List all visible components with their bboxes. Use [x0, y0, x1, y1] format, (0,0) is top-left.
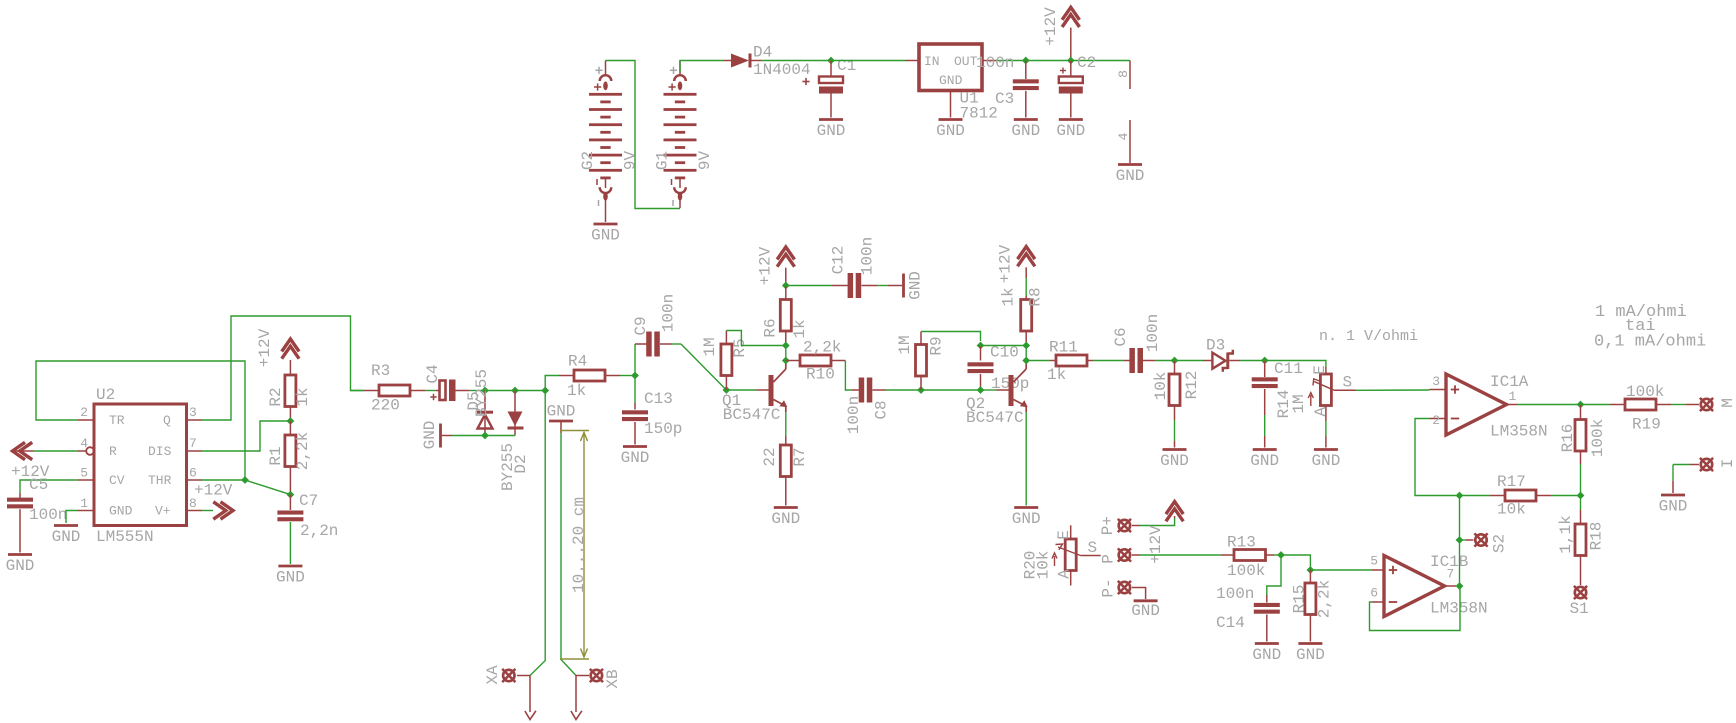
wire R5 top jog: [726, 331, 785, 346]
wire R14 wiper to IC1A: [1356, 389, 1430, 391]
wire probe XB drop: [561, 433, 576, 676]
junction R6/R5: [782, 342, 790, 350]
svg-text:1M: 1M: [701, 337, 719, 356]
wire P+ to +12V: [1132, 518, 1175, 526]
svg-text:+12V: +12V: [256, 328, 274, 367]
wire pin1 to ground: [66, 511, 78, 524]
diode D2 BY255: [499, 391, 530, 492]
wire R9 top to C10 node: [921, 332, 981, 342]
svg-text:D3: D3: [1206, 337, 1225, 355]
svg-text:M: M: [1719, 398, 1736, 408]
svg-text:5: 5: [1370, 554, 1378, 569]
capacitor C5 100n: [7, 476, 67, 553]
svg-text:GND: GND: [1012, 510, 1041, 528]
battery G1: [654, 61, 715, 209]
wire net to R4 and probe: [515, 390, 545, 392]
svg-text:DIS: DIS: [148, 444, 172, 459]
wire G1+ to D4: [680, 61, 724, 73]
capacitor C11: [1252, 360, 1303, 448]
wire R8 to collector: [1025, 346, 1027, 361]
connector P-: [1100, 578, 1132, 597]
junction R15 top: [1307, 566, 1315, 574]
junction at C2: [1067, 57, 1075, 65]
ground under C13: [621, 447, 650, 468]
svg-text:6: 6: [189, 466, 197, 481]
svg-text:7: 7: [189, 436, 197, 451]
transistor Q2 BC547C: [966, 361, 1028, 428]
wire Q2 emitter to ground: [1025, 412, 1027, 506]
svg-text:LM358N: LM358N: [1430, 600, 1488, 618]
pin 4 of IC1 supply: [1116, 120, 1131, 163]
supply +12V at R6: [757, 246, 795, 285]
wire D4 to C1: [761, 60, 831, 62]
svg-text:C6: C6: [1112, 327, 1130, 346]
connector S2: [1460, 533, 1509, 553]
junction C11: [1261, 357, 1269, 365]
svg-text:C4: C4: [424, 364, 442, 383]
connector M: [1686, 398, 1736, 411]
svg-text:0,1 mA/ohmi: 0,1 mA/ohmi: [1594, 333, 1706, 352]
diode D4 1N4004: [724, 44, 811, 80]
svg-text:4: 4: [1116, 132, 1131, 140]
capacitor C2: [1059, 54, 1096, 118]
resistor R6 1k: [762, 286, 810, 346]
svg-text:+12V: +12V: [194, 482, 233, 500]
junction R9 bottom: [917, 386, 925, 394]
junction THR: [241, 476, 249, 484]
svg-text:IC1A: IC1A: [1490, 373, 1529, 391]
wire IC1B feedback: [1370, 586, 1461, 631]
svg-text:E: E: [1311, 365, 1329, 375]
probe XA: [484, 665, 536, 720]
pin 6: [187, 466, 203, 481]
svg-text:R: R: [109, 444, 117, 459]
svg-text:2,2n: 2,2n: [300, 522, 338, 540]
svg-text:10k: 10k: [1035, 551, 1053, 580]
svg-text:C8: C8: [873, 400, 891, 419]
capacitor C13 150p: [622, 376, 682, 445]
svg-text:C5: C5: [29, 476, 48, 494]
svg-text:R15: R15: [1291, 585, 1309, 614]
wire base to Q2: [981, 389, 997, 391]
svg-text:2: 2: [80, 405, 88, 420]
svg-text:100n: 100n: [660, 294, 678, 332]
ground under G2: [591, 224, 620, 245]
junction R12: [1171, 357, 1179, 365]
svg-text:V+: V+: [155, 504, 171, 519]
battery G2: [579, 61, 640, 223]
pin 5: [78, 466, 94, 481]
svg-text:C10: C10: [990, 344, 1019, 362]
svg-text:GND: GND: [421, 421, 439, 450]
wire pin5 net: [1310, 569, 1372, 571]
ground under R15: [1296, 644, 1325, 665]
wire base net: [921, 389, 981, 391]
svg-text:GND: GND: [1311, 452, 1340, 470]
wire P to R13: [1132, 554, 1221, 556]
resistor R4 1k: [545, 353, 620, 401]
svg-text:GND: GND: [591, 227, 620, 245]
svg-text:R11: R11: [1049, 339, 1078, 357]
resistor R7 22: [761, 412, 809, 506]
svg-text:10k: 10k: [1152, 372, 1170, 401]
op-amp IC1B LM358N: [1370, 553, 1487, 618]
ground under R14: [1311, 450, 1340, 471]
capacitor C4: [424, 364, 469, 401]
svg-text:C12: C12: [830, 246, 848, 275]
svg-text:R1: R1: [267, 446, 285, 465]
svg-text:1k: 1k: [1000, 287, 1018, 306]
connector I: [1673, 458, 1736, 471]
pin 1: [78, 496, 94, 511]
svg-text:100k: 100k: [1589, 419, 1607, 457]
ground under C14: [1252, 644, 1281, 665]
svg-text:8: 8: [1116, 70, 1131, 78]
ground under U1: [936, 120, 965, 141]
resistor R9 1M: [896, 332, 946, 391]
resistor R17 10k: [1460, 473, 1581, 519]
svg-text:C13: C13: [644, 390, 673, 408]
svg-text:100n: 100n: [1144, 314, 1162, 352]
resistor R11 1k: [1026, 339, 1093, 385]
svg-text:G1: G1: [654, 151, 672, 170]
junction +12V/C12: [782, 282, 790, 290]
op-amp IC1A LM358N: [1430, 373, 1548, 441]
wire probe XA drop: [530, 391, 545, 676]
ground left of diodes: [421, 421, 452, 450]
svg-text:A: A: [1056, 569, 1074, 579]
svg-text:R10: R10: [806, 366, 835, 384]
ground above probe XB: [547, 403, 576, 434]
svg-text:n. 1 V/ohmi: n. 1 V/ohmi: [1319, 328, 1418, 345]
svg-text:GND: GND: [1160, 452, 1189, 470]
pin 2: [78, 405, 94, 420]
IC U2 LM555N: [94, 386, 187, 546]
capacitor C14 100n: [1216, 585, 1280, 642]
svg-text:3: 3: [189, 405, 197, 420]
connector S1: [1570, 586, 1589, 618]
svg-text:R13: R13: [1227, 534, 1256, 552]
svg-text:2,2k: 2,2k: [803, 339, 841, 357]
junction feedback node: [1456, 492, 1464, 500]
resistor R3 220: [351, 362, 426, 415]
ground under C11: [1250, 450, 1279, 471]
ground at P-: [1131, 601, 1160, 620]
svg-text:C11: C11: [1274, 360, 1303, 378]
resistor R8 1k: [1000, 287, 1045, 345]
supply +12V at R8: [997, 244, 1035, 296]
svg-text:D4: D4: [753, 44, 772, 62]
ground under R12: [1160, 450, 1189, 471]
wire ground to diodes: [452, 435, 485, 437]
wire node to R14: [1265, 361, 1326, 368]
svg-text:GND: GND: [1250, 452, 1279, 470]
svg-text:R6: R6: [762, 318, 780, 337]
resistor R15 2,2k: [1291, 570, 1334, 642]
svg-text:2,2k: 2,2k: [1316, 580, 1334, 618]
svg-text:S2: S2: [1491, 534, 1509, 553]
svg-text:GND: GND: [547, 403, 576, 421]
svg-text:IN: IN: [924, 54, 940, 69]
svg-text:22: 22: [761, 447, 779, 466]
svg-text:XB: XB: [604, 669, 622, 688]
junction R17/R16/R18: [1577, 492, 1585, 500]
svg-text:CV: CV: [109, 473, 125, 488]
svg-text:R18: R18: [1588, 522, 1606, 551]
svg-text:7812: 7812: [960, 105, 998, 123]
wire S2 drop: [1459, 496, 1461, 541]
svg-text:GND: GND: [52, 528, 81, 546]
svg-text:R7: R7: [791, 447, 809, 466]
wire R8 to C10 node: [981, 345, 1027, 347]
svg-text:I: I: [1719, 459, 1736, 469]
svg-text:1k: 1k: [1047, 366, 1066, 384]
supply +12V at pin 8: [194, 482, 233, 520]
capacitor C7 2,2n: [277, 492, 338, 564]
svg-text:C1: C1: [837, 57, 856, 75]
wire C9 diagonal to Q1 base: [672, 344, 726, 390]
wire D3 to C11 node: [1240, 360, 1265, 362]
svg-text:+12V: +12V: [997, 244, 1015, 283]
svg-text:Q: Q: [163, 413, 171, 428]
wire THR to R1/C7 node: [245, 480, 290, 495]
capacitor C9 100n: [632, 294, 678, 376]
resistor R10 2,2k: [786, 339, 846, 384]
svg-text:R16: R16: [1559, 424, 1577, 453]
svg-text:9V: 9V: [696, 151, 714, 171]
junction at C1: [827, 57, 835, 65]
capacitor C12 100n: [786, 237, 888, 298]
wire IC1A feedback: [1415, 419, 1460, 496]
resistor R19 100k: [1581, 383, 1687, 434]
svg-text:150p: 150p: [644, 420, 682, 438]
capacitor C1: [802, 57, 856, 118]
svg-text:C7: C7: [299, 492, 318, 510]
voltage regulator U1 7812: [905, 44, 998, 123]
supply +12V at C2: [1042, 7, 1079, 61]
junction IC1A out: [1577, 401, 1585, 409]
junction C9/C13: [631, 372, 639, 380]
wire diode ground: [485, 435, 515, 437]
svg-text:G2: G2: [579, 151, 597, 170]
svg-text:GND: GND: [907, 271, 925, 300]
junction Q1 base: [723, 386, 731, 394]
junction D2: [511, 387, 519, 395]
wire Q output loop: [202, 316, 364, 420]
svg-text:100n: 100n: [976, 54, 1014, 72]
transistor Q1 BC547C: [722, 361, 787, 425]
svg-text:GND: GND: [1011, 122, 1040, 140]
wire DIS to R1/R2 node: [202, 421, 290, 451]
dimension 10...20 cm: [560, 431, 589, 660]
supply +12V at pin 4: [11, 442, 78, 481]
wire I to ground: [1672, 465, 1674, 494]
svg-text:100n: 100n: [1216, 585, 1254, 603]
svg-text:D2: D2: [512, 454, 530, 473]
svg-text:BC547C: BC547C: [723, 406, 781, 424]
svg-text:S: S: [1343, 373, 1353, 391]
svg-text:R5: R5: [731, 338, 749, 357]
junction diode ground: [481, 432, 489, 440]
svg-text:GND: GND: [1659, 498, 1688, 516]
svg-text:1M: 1M: [1290, 394, 1308, 413]
wire R4 to C9 node: [620, 375, 635, 377]
wire battery net G2+ to G1-: [606, 61, 681, 209]
svg-text:LM555N: LM555N: [96, 528, 154, 546]
probe XB: [571, 669, 622, 720]
junction R1/C7: [287, 491, 295, 499]
ground under C5: [6, 555, 35, 576]
svg-text:R17: R17: [1497, 473, 1526, 491]
svg-text:OUT: OUT: [954, 54, 978, 69]
connector P: [1100, 548, 1132, 563]
wire R10 to C8: [845, 361, 852, 391]
wire R13 node to pin5: [1281, 555, 1310, 570]
svg-text:3: 3: [1432, 374, 1440, 389]
wire S2 to IC1B out: [1459, 540, 1461, 586]
svg-text:10...20 cm: 10...20 cm: [570, 497, 588, 593]
svg-text:GND: GND: [276, 569, 305, 587]
wire pin5 to C5: [20, 480, 78, 493]
wire diode node: [485, 390, 515, 392]
svg-text:E: E: [1055, 530, 1073, 540]
pin 3: [187, 405, 203, 420]
wire U1 OUT rail: [996, 60, 1130, 62]
wire R6 to collector node: [785, 346, 787, 361]
svg-text:GND: GND: [936, 122, 965, 140]
svg-text:R12: R12: [1183, 371, 1201, 400]
note mA/ohmi: [1594, 303, 1706, 352]
svg-text:A: A: [1312, 407, 1330, 417]
svg-text:TR: TR: [109, 413, 125, 428]
diode D5 BY255: [465, 369, 493, 436]
pin 8 of IC1 supply: [1116, 61, 1131, 90]
svg-text:THR: THR: [148, 473, 172, 488]
svg-text:R4: R4: [568, 353, 587, 371]
svg-text:100k: 100k: [1626, 383, 1664, 401]
pin 8: [187, 496, 203, 511]
capacitor C6 100n: [1093, 314, 1175, 373]
svg-text:1M: 1M: [896, 335, 914, 354]
svg-text:P+: P+: [1099, 516, 1117, 535]
ground under C7: [276, 566, 305, 587]
svg-text:GND: GND: [1252, 646, 1281, 664]
junction Q1 collector: [782, 357, 790, 365]
ground under C2: [1056, 120, 1085, 141]
resistor R13 100k: [1221, 534, 1281, 581]
resistor R2 1k: [267, 375, 312, 421]
svg-text:BC547C: BC547C: [966, 409, 1024, 427]
junction at R4 tap: [541, 387, 549, 395]
svg-text:1: 1: [80, 496, 88, 511]
wire TR-THR net: [36, 361, 245, 480]
svg-text:BY255: BY255: [473, 369, 491, 417]
capacitor C10 150p: [968, 344, 1030, 394]
svg-text:R3: R3: [371, 362, 390, 380]
svg-text:GND: GND: [939, 73, 963, 88]
junction C10 top: [977, 342, 985, 350]
supply +12V at R2: [256, 328, 299, 375]
junction Q2 base: [977, 386, 985, 394]
resistor R1 2,2k: [267, 421, 312, 495]
svg-text:R19: R19: [1632, 416, 1661, 434]
svg-text:GND: GND: [817, 122, 846, 140]
svg-text:R2: R2: [267, 387, 285, 406]
svg-text:5: 5: [80, 466, 88, 481]
junction S2: [1456, 536, 1464, 544]
svg-text:100k: 100k: [1227, 562, 1265, 580]
wire C4 to diode node: [469, 390, 485, 392]
svg-text:+12V: +12V: [757, 246, 775, 285]
svg-text:GND: GND: [1056, 122, 1085, 140]
svg-text:9V: 9V: [622, 151, 640, 171]
resistor R16 100k: [1559, 405, 1607, 496]
svg-text:GND: GND: [1131, 602, 1160, 620]
pin 7: [187, 436, 203, 451]
ground right of C12: [888, 271, 925, 300]
supply +12V at P+: [1147, 502, 1183, 564]
svg-text:2: 2: [1432, 413, 1440, 428]
svg-text:C14: C14: [1216, 614, 1245, 632]
svg-text:R8: R8: [1027, 287, 1045, 306]
svg-text:C9: C9: [632, 316, 650, 335]
svg-text:1,1k: 1,1k: [1557, 515, 1575, 553]
svg-text:4: 4: [80, 436, 88, 451]
svg-text:100n: 100n: [859, 237, 877, 275]
svg-text:GND: GND: [1296, 646, 1325, 664]
junction Q2 collector: [1022, 357, 1030, 365]
svg-text:2,2k: 2,2k: [294, 432, 312, 470]
svg-text:1k: 1k: [791, 319, 809, 338]
svg-text:P: P: [1100, 554, 1118, 564]
svg-text:1k: 1k: [567, 382, 586, 400]
svg-text:LM358N: LM358N: [1490, 423, 1548, 441]
resistor R12 10k: [1152, 361, 1201, 448]
svg-text:+12V: +12V: [1147, 525, 1165, 564]
trimmer R14 1M: [1275, 365, 1356, 447]
note n. 1 V/ohmi: [1319, 328, 1418, 345]
junction R2/R1: [287, 417, 295, 425]
junction IC1B out: [1456, 582, 1464, 590]
resistor R18 1,1k: [1557, 496, 1605, 586]
svg-text:S1: S1: [1570, 600, 1589, 618]
capacitor C3 100n: [976, 54, 1039, 118]
svg-text:+12V: +12V: [1042, 7, 1060, 46]
wire C14 tap: [1267, 555, 1281, 595]
ground under R7: [771, 508, 800, 529]
wire IC1A output: [1517, 404, 1581, 406]
svg-text:100n: 100n: [845, 396, 863, 434]
svg-text:GND: GND: [6, 557, 35, 575]
svg-text:C3: C3: [995, 90, 1014, 108]
ground under pin 4: [1116, 165, 1145, 186]
svg-text:1: 1: [1509, 389, 1517, 404]
trimmer R20 10k: [1022, 525, 1101, 585]
svg-text:10k: 10k: [1497, 501, 1526, 519]
svg-text:GND: GND: [771, 510, 800, 528]
ground under C1: [817, 120, 846, 141]
svg-text:GND: GND: [109, 504, 133, 519]
svg-text:GND: GND: [621, 449, 650, 467]
pin 4: [78, 436, 94, 455]
svg-text:S: S: [1088, 539, 1098, 557]
svg-text:1k: 1k: [294, 387, 312, 406]
svg-text:R9: R9: [928, 336, 946, 355]
svg-text:XA: XA: [484, 665, 502, 685]
connector P+: [1099, 516, 1131, 535]
capacitor C8 100n: [845, 378, 921, 435]
svg-text:IC1B: IC1B: [1430, 553, 1468, 571]
